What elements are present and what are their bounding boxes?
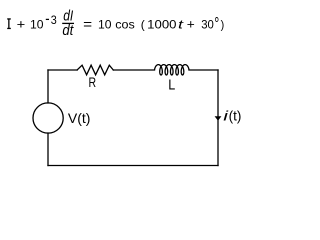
- wire top-right: [189, 69, 218, 71]
- svg-text:t: t: [178, 18, 184, 32]
- svg-text:dI: dI: [63, 8, 73, 24]
- superscript minus: [46, 18, 49, 20]
- wire top-middle: [113, 69, 154, 71]
- wire bottom: [48, 165, 218, 167]
- svg-text:cos: cos: [115, 18, 135, 32]
- svg-text:): ): [221, 18, 225, 32]
- inductor L coil: [155, 65, 190, 75]
- svg-text:dt: dt: [62, 23, 74, 39]
- wire right side: [217, 70, 219, 166]
- svg-text:(t): (t): [229, 108, 242, 124]
- svg-text:°: °: [214, 14, 219, 34]
- svg-text:3: 3: [51, 13, 57, 27]
- fraction bar: [62, 22, 74, 24]
- svg-text:10: 10: [98, 18, 112, 32]
- wire top-left: [48, 69, 77, 71]
- voltage source circle: [33, 103, 63, 133]
- svg-text:R: R: [89, 75, 97, 90]
- wire left upper: [47, 70, 49, 103]
- svg-text:L: L: [168, 78, 175, 94]
- svg-text:+: +: [17, 17, 26, 32]
- svg-text:+: +: [187, 16, 195, 31]
- term I (serif capital): [7, 19, 11, 29]
- current arrow head: [215, 116, 222, 121]
- resistor R zigzag: [77, 65, 113, 75]
- svg-text:30: 30: [201, 18, 214, 32]
- wire left lower: [47, 133, 49, 166]
- equation: I + 10^-3 dI/dt = 10 cos (1000t + 30deg): [7, 8, 224, 39]
- svg-text:V(t): V(t): [68, 110, 91, 126]
- circuit: [33, 65, 218, 166]
- svg-text:1000: 1000: [147, 18, 177, 32]
- svg-text:(: (: [141, 18, 145, 32]
- svg-text:=: =: [83, 17, 92, 33]
- svg-text:10: 10: [30, 18, 44, 32]
